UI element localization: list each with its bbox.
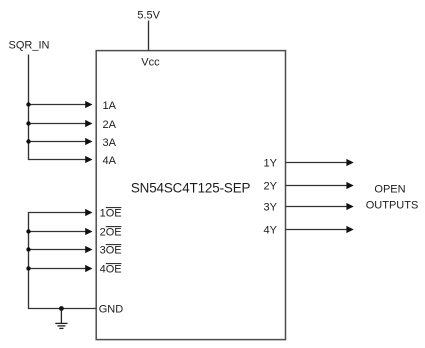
svg-text:OPEN: OPEN (374, 183, 405, 195)
svg-text:4OE: 4OE (100, 264, 122, 276)
svg-text:OUTPUTS: OUTPUTS (366, 199, 419, 211)
svg-text:4A: 4A (103, 155, 117, 167)
svg-text:3OE: 3OE (100, 245, 122, 257)
svg-text:3Y: 3Y (264, 202, 278, 214)
svg-text:2A: 2A (103, 119, 117, 131)
svg-text:4Y: 4Y (264, 225, 278, 237)
svg-text:1Y: 1Y (264, 158, 278, 170)
svg-text:GND: GND (99, 304, 124, 316)
svg-text:SQR_IN: SQR_IN (9, 40, 50, 52)
svg-text:Vcc: Vcc (141, 57, 160, 69)
svg-text:2OE: 2OE (100, 227, 122, 239)
svg-text:3A: 3A (103, 137, 117, 149)
svg-text:SN54SC4T125-SEP: SN54SC4T125-SEP (131, 181, 251, 196)
svg-text:2Y: 2Y (264, 181, 278, 193)
svg-text:1OE: 1OE (100, 208, 122, 220)
svg-text:5.5V: 5.5V (137, 9, 160, 21)
svg-text:1A: 1A (103, 100, 117, 112)
